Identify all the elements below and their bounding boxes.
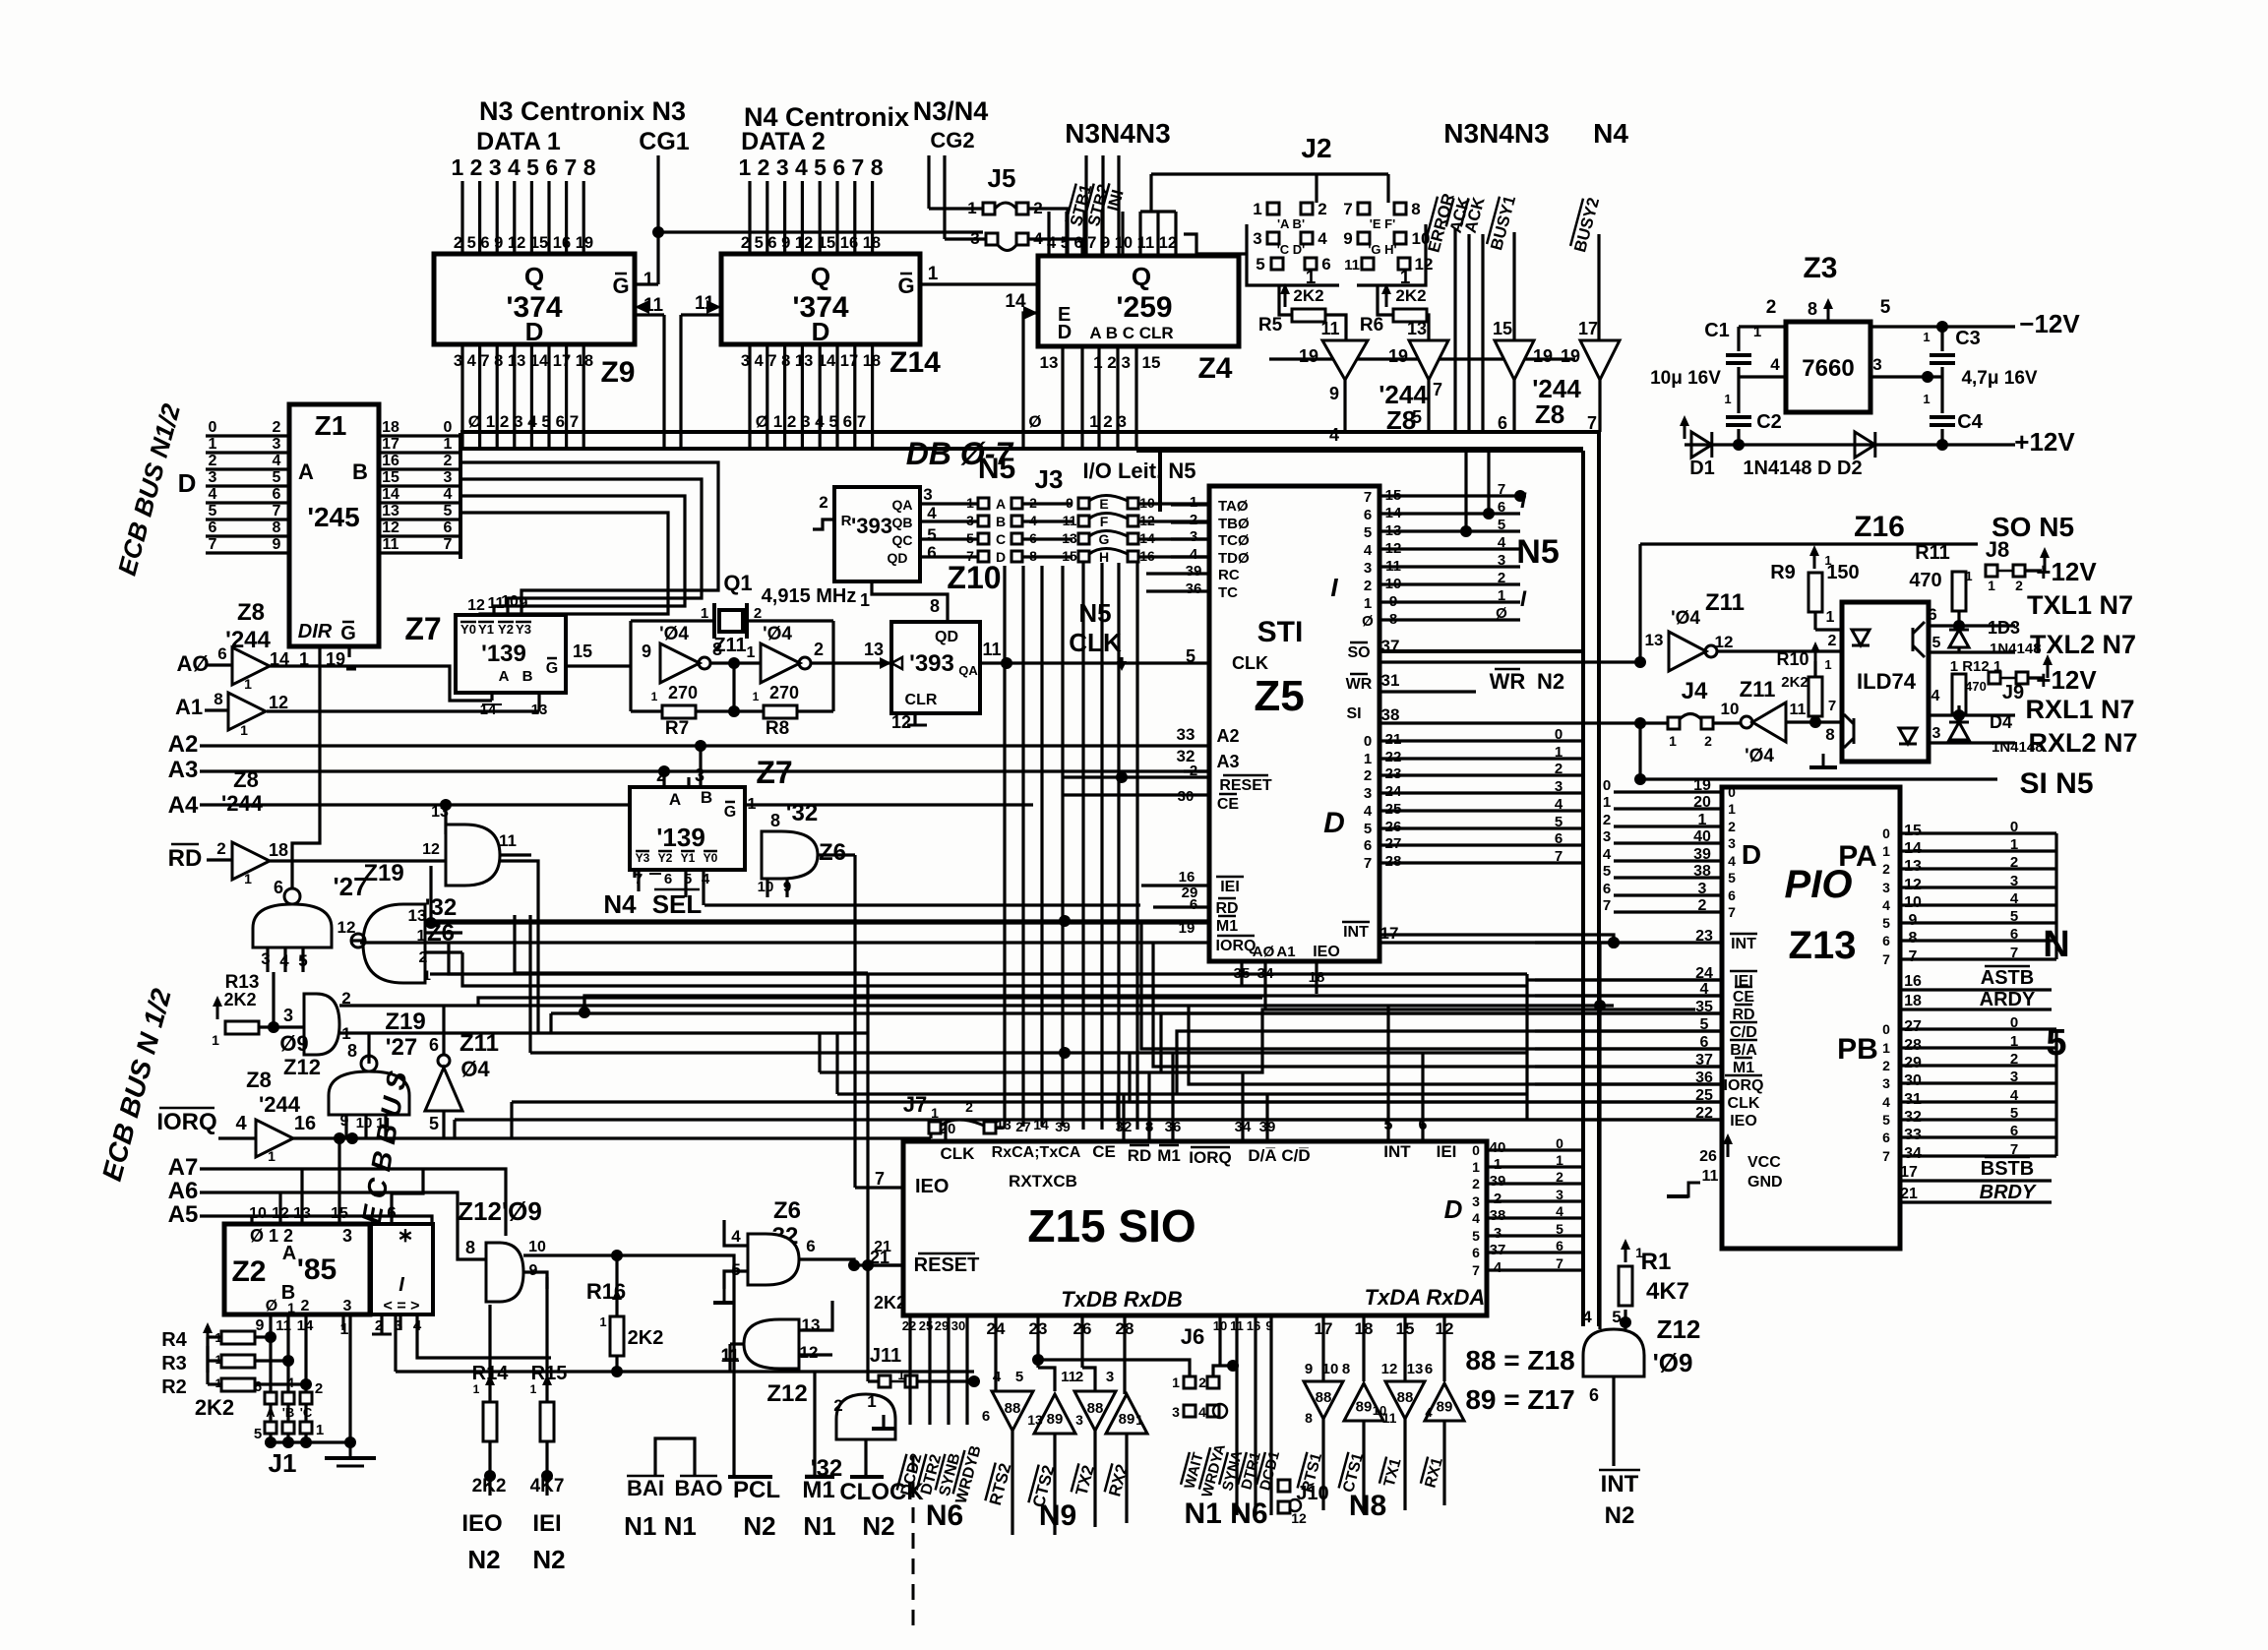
- svg-text:R: R: [841, 513, 852, 529]
- svg-text:16: 16: [294, 1113, 316, 1134]
- wire PIO D6 stub: [1614, 893, 1722, 896]
- and Z12b 09: [1583, 1329, 1644, 1376]
- svg-text:13: 13: [864, 640, 884, 659]
- wire midband v851: [835, 1033, 838, 1094]
- svg-text:WR: WR: [1490, 669, 1526, 694]
- resistor R11: [1952, 572, 1966, 611]
- svg-text:18: 18: [1904, 993, 1922, 1009]
- wire DATA1 bit 1: [460, 181, 463, 254]
- wire SI row: [1379, 721, 1640, 724]
- wire C2 v: [1737, 377, 1740, 413]
- wire T2 out: [1053, 1434, 1056, 1535]
- svg-text:Z19: Z19: [385, 1008, 425, 1035]
- svg-text:89: 89: [1437, 1399, 1453, 1416]
- svg-text:'139: '139: [481, 641, 526, 667]
- wire midband v539: [528, 915, 531, 1053]
- wire Z4 top connector: [1140, 210, 1176, 213]
- wire J7 out: [996, 1126, 1005, 1129]
- jumper J3 G sq2: [1128, 533, 1138, 544]
- net DTR2 rotated: [916, 1452, 945, 1497]
- svg-text:6: 6: [1555, 830, 1563, 847]
- svg-text:4: 4: [1329, 425, 1339, 445]
- svg-text:13: 13: [1040, 353, 1059, 372]
- svg-text:3: 3: [1698, 881, 1707, 897]
- jumper J8 sq1: [1986, 565, 1997, 577]
- svg-text:2: 2: [1494, 1191, 1502, 1207]
- wire feeder BA pio: [1535, 1047, 1722, 1050]
- wire TXL2 line: [1929, 650, 2015, 653]
- svg-text:'32: '32: [786, 800, 818, 826]
- wire Z5 D row 7: [1379, 861, 1583, 864]
- svg-text:4: 4: [1882, 897, 1890, 913]
- and Z12c gate: [486, 1243, 523, 1302]
- ic Z5 STI box: [1209, 486, 1379, 961]
- wire Z5 A0 drop: [1240, 961, 1243, 986]
- wire PB row 0: [1900, 1027, 2056, 1030]
- jumper J2 sq3: [1267, 232, 1279, 244]
- wire Z1 A side bit 0: [206, 434, 289, 437]
- svg-text:0: 0: [1364, 733, 1372, 750]
- svg-text:5: 5: [1498, 517, 1505, 533]
- wire R5 feed: [1279, 285, 1292, 315]
- svg-text:0: 0: [2010, 1014, 2018, 1031]
- wire 139b pin3 up: [699, 746, 702, 787]
- wire staircase r5: [1189, 1006, 1535, 1084]
- wire Z5 A3 stub: [1184, 769, 1209, 772]
- svg-text:12: 12: [1381, 1361, 1398, 1377]
- svg-text:12: 12: [337, 918, 356, 937]
- jumper J2 sq1: [1267, 203, 1279, 214]
- wire CG2 a: [927, 155, 930, 209]
- svg-text:5: 5: [1472, 1228, 1480, 1244]
- wire PIO D0 stub: [1614, 790, 1722, 793]
- svg-text:4K7: 4K7: [530, 1476, 565, 1497]
- svg-text:0: 0: [209, 419, 217, 436]
- svg-text:7: 7: [1343, 200, 1352, 218]
- svg-text:4: 4: [1931, 688, 1940, 704]
- svg-text:36: 36: [1186, 581, 1202, 597]
- wire J2 group frame right: [1357, 224, 1426, 285]
- latch Z14 '374 box: [721, 254, 920, 344]
- wire DATA2 bit 2: [766, 181, 768, 254]
- wire SIO D row 6: [1487, 1251, 1583, 1253]
- svg-text:13: 13: [1407, 1361, 1424, 1377]
- svg-text:1: 1: [1988, 578, 1995, 593]
- svg-text:1: 1: [753, 690, 760, 703]
- wire pin18 drop: [1362, 1315, 1365, 1381]
- wire CG2 to J5: [929, 207, 983, 210]
- wire PIO M1 stub: [1535, 1065, 1722, 1068]
- wire DATA2 bit 6: [835, 181, 838, 254]
- svg-text:10: 10: [1322, 1361, 1339, 1377]
- jumper J3 D sq1: [978, 551, 989, 562]
- wire Z1 B side bit 7: [379, 551, 460, 554]
- and Z12d gate: [744, 1319, 799, 1369]
- svg-text:QD: QD: [935, 629, 958, 645]
- jumper J5 arc top: [995, 203, 1016, 209]
- svg-text:GND: GND: [1747, 1174, 1783, 1191]
- svg-text:CG1: CG1: [639, 128, 690, 155]
- svg-text:1D3: 1D3: [1988, 618, 2020, 638]
- and Z12a 09: [304, 994, 339, 1055]
- net DCD1 rotated: [1256, 1449, 1283, 1493]
- wire midband v833: [818, 1033, 821, 1072]
- wire DATA1 bit 3: [496, 181, 499, 254]
- svg-text:IEI: IEI: [1220, 879, 1240, 895]
- svg-text:9: 9: [1909, 912, 1918, 929]
- svg-text:12: 12: [1715, 633, 1734, 651]
- inverter Z11e: [1752, 703, 1786, 742]
- svg-text:N3 Centronix N3: N3 Centronix N3: [479, 96, 686, 126]
- svg-text:+12V: +12V: [2036, 665, 2097, 695]
- wire 393a out B: [920, 519, 978, 522]
- svg-text:BAI: BAI: [627, 1476, 664, 1500]
- svg-text:7: 7: [1882, 1148, 1890, 1164]
- svg-text:J10: J10: [1296, 1483, 1328, 1504]
- wire SIO SYNB stub: [947, 1315, 950, 1425]
- svg-text:0: 0: [1882, 825, 1890, 841]
- wire Z14 out bit 2: [783, 344, 786, 449]
- svg-text:34: 34: [1904, 1145, 1922, 1162]
- svg-text:3: 3: [1882, 1075, 1890, 1091]
- svg-text:N5: N5: [978, 453, 1015, 485]
- wire midband h936: [431, 919, 1209, 922]
- svg-text:13: 13: [1904, 858, 1922, 875]
- jumper J11 sq2: [905, 1375, 917, 1387]
- resistor R9: [1808, 573, 1822, 612]
- wire IEO drop: [488, 1305, 491, 1402]
- svg-text:0: 0: [1603, 777, 1611, 794]
- net ACK rotated 2: [1460, 194, 1489, 234]
- svg-text:N: N: [2043, 924, 2069, 965]
- wire SI bottom line: [1640, 777, 1997, 780]
- svg-text:2K2: 2K2: [874, 1293, 906, 1313]
- wire DATA2 bit 5: [819, 181, 822, 254]
- svg-text:3: 3: [1472, 1193, 1480, 1209]
- wire PA row 6: [1900, 939, 2056, 942]
- resistor R16: [610, 1316, 624, 1356]
- wire J6 line: [1038, 1360, 1190, 1376]
- wire Z4 top pin 1: [1065, 212, 1068, 256]
- node C2 junction: [1733, 439, 1745, 451]
- svg-text:1: 1: [444, 436, 453, 453]
- wire C3 v: [1940, 327, 1943, 351]
- svg-text:G: G: [1099, 531, 1110, 547]
- svg-text:J5: J5: [988, 163, 1016, 193]
- wire feeder CE pio: [584, 996, 1722, 1012]
- svg-text:Z12'Ø9: Z12'Ø9: [458, 1196, 542, 1226]
- svg-text:4: 4: [1555, 796, 1563, 813]
- svg-text:A4: A4: [168, 792, 199, 819]
- svg-text:13: 13: [408, 906, 427, 925]
- svg-text:G: G: [897, 274, 914, 298]
- svg-text:4: 4: [444, 486, 453, 503]
- svg-text:12: 12: [382, 519, 399, 536]
- svg-text:0: 0: [1728, 784, 1736, 800]
- svg-text:J2: J2: [1301, 133, 1331, 163]
- svg-text:10: 10: [1721, 700, 1740, 718]
- svg-text:3 4 7 8 13 14 17 18: 3 4 7 8 13 14 17 18: [741, 352, 881, 370]
- resistor R3 box: [221, 1355, 255, 1368]
- wire Z5 D row 4: [1379, 809, 1583, 812]
- wire feeder IEI pio: [1527, 978, 1722, 981]
- svg-text:Z8: Z8: [237, 599, 265, 626]
- svg-text:A B C CLR: A B C CLR: [1089, 324, 1173, 342]
- pulse symbol: [655, 1438, 695, 1477]
- wire Z5 TC stub: [1146, 589, 1209, 592]
- svg-text:11: 11: [1382, 1410, 1397, 1426]
- svg-text:AØ: AØ: [1253, 944, 1275, 960]
- svg-text:2: 2: [1828, 633, 1837, 649]
- resistor R2 box: [221, 1378, 255, 1391]
- wire PA row 5: [1900, 921, 2056, 924]
- svg-text:21: 21: [874, 1239, 891, 1255]
- svg-text:6: 6: [429, 1035, 439, 1055]
- svg-text:37: 37: [1381, 637, 1400, 655]
- svg-text:1: 1: [1364, 595, 1372, 612]
- svg-text:D/A̅ C/D̅: D/A̅ C/D̅: [1248, 1146, 1310, 1165]
- svg-text:N2: N2: [862, 1511, 894, 1541]
- svg-text:40: 40: [1693, 828, 1711, 845]
- svg-text:ASTB: ASTB: [1981, 967, 2034, 989]
- wire ACK drop 2: [1481, 234, 1484, 432]
- svg-text:'Ø4: 'Ø4: [1671, 608, 1700, 629]
- wire staircase r6: [1130, 1053, 1535, 1102]
- wire pin9 drop: [1269, 1315, 1272, 1515]
- svg-text:6: 6: [254, 1378, 262, 1395]
- resistor R10: [1808, 677, 1822, 716]
- svg-text:18: 18: [269, 840, 288, 860]
- svg-text:88: 88: [1087, 1400, 1104, 1417]
- svg-text:6: 6: [1728, 887, 1736, 903]
- wire J5 row2 left: [945, 237, 986, 240]
- svg-text:N5: N5: [1516, 533, 1559, 571]
- wire PB row 4: [1900, 1100, 2056, 1103]
- wire CG1 vertical: [656, 155, 659, 284]
- wire IEI drop: [545, 1277, 548, 1402]
- wire N5 CLK arrow: [1120, 657, 1123, 663]
- buffer RD triangle: [232, 842, 270, 880]
- svg-text:4: 4: [1603, 846, 1612, 863]
- wire SO vert: [1638, 544, 1641, 662]
- bus vertical DB a: [1581, 651, 1585, 1326]
- wire R11 down: [1957, 611, 1960, 652]
- wire Z12d in12: [799, 1353, 832, 1356]
- svg-text:A: A: [669, 790, 681, 809]
- wire comp pin3 stub: [398, 1314, 401, 1330]
- node A4 junction2: [683, 799, 695, 811]
- svg-text:Ø4: Ø4: [460, 1057, 490, 1081]
- svg-text:Z5: Z5: [1254, 672, 1304, 720]
- wire osc top left: [631, 619, 714, 622]
- wire Z5 IEI stub: [1141, 884, 1209, 886]
- svg-text:J6: J6: [1181, 1324, 1204, 1349]
- svg-text:PB: PB: [1837, 1033, 1878, 1066]
- svg-text:2: 2: [819, 493, 828, 512]
- svg-text:5: 5: [444, 503, 453, 519]
- wire PIO D1 stub: [1614, 807, 1722, 810]
- svg-text:8: 8: [1342, 1361, 1350, 1377]
- wire staircase r3: [1141, 921, 1535, 1049]
- label M1 CLOCK bars: [805, 1475, 834, 1479]
- svg-text:3: 3: [1728, 835, 1736, 851]
- svg-text:39: 39: [1186, 563, 1202, 580]
- svg-text:6: 6: [274, 878, 283, 897]
- receiver 89 T4: [1106, 1394, 1147, 1434]
- svg-text:88 = Z18: 88 = Z18: [1465, 1345, 1574, 1375]
- wire SIO D row 0: [1487, 1148, 1583, 1151]
- svg-text:Z8: Z8: [233, 767, 259, 792]
- wire Z9 out bit 7: [582, 344, 585, 449]
- bus DB line upper: [460, 430, 1600, 434]
- svg-text:6: 6: [664, 871, 672, 887]
- wire feeder band a: [449, 943, 1527, 974]
- diode D3: [1949, 630, 1969, 647]
- svg-text:14: 14: [382, 486, 399, 503]
- resistor R13: [225, 1021, 259, 1034]
- svg-text:Ø: Ø: [1362, 613, 1374, 630]
- svg-text:5: 5: [1256, 255, 1264, 274]
- wire PB row 2: [1900, 1064, 2056, 1067]
- jumper J2 sq7: [1358, 203, 1370, 214]
- svg-text:RD: RD: [1732, 1007, 1754, 1023]
- wire Z5 INT out: [1379, 935, 1614, 943]
- svg-text:1: 1: [473, 1382, 480, 1396]
- svg-text:13: 13: [1645, 631, 1664, 649]
- svg-text:19: 19: [1533, 346, 1553, 366]
- svg-text:'Ø4: 'Ø4: [659, 624, 689, 644]
- svg-text:1: 1: [651, 690, 658, 703]
- label Z2 pin1 stub: [341, 1314, 344, 1330]
- svg-text:11: 11: [982, 640, 1001, 659]
- svg-text:B/A: B/A: [1730, 1042, 1757, 1059]
- svg-text:Z4: Z4: [1197, 352, 1232, 385]
- wire Z6a in2: [425, 950, 462, 953]
- svg-text:H: H: [1099, 549, 1109, 565]
- wire Z14 out bit 4: [819, 344, 822, 449]
- svg-text:CE: CE: [1217, 796, 1240, 813]
- wire J3 H out: [1138, 555, 1209, 558]
- net STB1 rotated: [1066, 182, 1096, 228]
- resistor R12: [1952, 674, 1966, 713]
- svg-text:5: 5: [1364, 524, 1372, 541]
- wire DATA1 bit 5: [530, 181, 533, 254]
- wire R12 down: [1957, 705, 1960, 715]
- wire PIO D5 stub: [1614, 876, 1722, 879]
- wire tri4 out: [1598, 380, 1601, 432]
- svg-text:5: 5: [1556, 1221, 1563, 1237]
- wire R10 down: [1813, 716, 1816, 722]
- svg-text:13: 13: [531, 702, 548, 718]
- wire Z1 B side bit 5: [379, 518, 460, 520]
- svg-text:TDØ: TDØ: [1218, 550, 1250, 567]
- wire J3 A out: [1022, 502, 1073, 505]
- wire osc right: [831, 621, 834, 711]
- svg-text:12: 12: [891, 712, 911, 732]
- svg-text:IEI: IEI: [1437, 1142, 1457, 1161]
- wire Z5 RC stub: [1146, 572, 1209, 575]
- svg-text:TAØ: TAØ: [1218, 498, 1249, 515]
- svg-text:4: 4: [1770, 355, 1780, 374]
- svg-text:16: 16: [1179, 869, 1195, 886]
- jumper J7 sq2: [984, 1122, 996, 1133]
- svg-text:2K2: 2K2: [223, 990, 256, 1009]
- svg-text:11: 11: [1061, 1369, 1076, 1385]
- svg-text:R1: R1: [1641, 1249, 1672, 1275]
- svg-text:4,7μ 16V: 4,7μ 16V: [1961, 368, 2037, 389]
- svg-text:BAO: BAO: [675, 1476, 723, 1500]
- wire STB2 drop: [1101, 155, 1104, 256]
- resistor R4 box: [221, 1331, 255, 1344]
- svg-text:B: B: [352, 459, 368, 484]
- wire PIO INT stub: [1535, 941, 1722, 944]
- wire J9 out: [2028, 676, 2045, 679]
- svg-text:ILD74: ILD74: [1857, 669, 1917, 694]
- svg-text:9: 9: [273, 536, 281, 553]
- svg-text:4: 4: [927, 504, 937, 522]
- svg-text:5: 5: [1603, 863, 1611, 880]
- svg-text:4: 4: [1728, 853, 1736, 869]
- svg-text:QB: QB: [892, 515, 913, 530]
- svg-text:Ø: Ø: [1028, 412, 1041, 431]
- svg-text:Z11: Z11: [460, 1030, 499, 1057]
- svg-text:33: 33: [1177, 725, 1195, 744]
- wire inv1 to inv2: [710, 661, 761, 664]
- wire feeder CD pio: [1535, 1029, 1722, 1032]
- capacitor C3: [1930, 353, 1955, 357]
- svg-text:I: I: [1520, 586, 1527, 611]
- svg-text:CG2: CG2: [930, 128, 974, 153]
- svg-text:7: 7: [1472, 1262, 1480, 1278]
- wire Z12d in13: [799, 1301, 832, 1330]
- svg-text:5: 5: [966, 530, 974, 546]
- wire bus bend 4: [460, 513, 668, 615]
- svg-text:I/O Leit. N5: I/O Leit. N5: [1083, 458, 1196, 483]
- svg-text:3: 3: [923, 485, 932, 504]
- svg-text:2: 2: [2010, 1051, 2018, 1068]
- wire R14 down: [488, 1441, 491, 1496]
- svg-text:1: 1: [1555, 744, 1563, 761]
- svg-text:RXL1 N7: RXL1 N7: [2025, 695, 2134, 724]
- svg-text:13: 13: [1027, 1412, 1043, 1428]
- svg-text:N1: N1: [803, 1511, 835, 1541]
- svg-text:RXL2 N7: RXL2 N7: [2028, 728, 2137, 758]
- svg-text:6: 6: [1321, 255, 1330, 274]
- svg-text:2: 2: [1364, 578, 1372, 594]
- svg-text:32: 32: [1904, 1109, 1922, 1126]
- wire WR row: [1379, 690, 1476, 693]
- svg-text:IEO: IEO: [915, 1176, 949, 1197]
- wire N4SEL line: [705, 903, 1140, 906]
- or Z6e gate: [836, 1394, 895, 1439]
- svg-text:Ø: Ø: [266, 1298, 277, 1314]
- capacitor C2: [1726, 415, 1751, 419]
- svg-text:Z11: Z11: [713, 635, 746, 656]
- jumper J2 sq6: [1305, 258, 1317, 270]
- svg-text:D: D: [1323, 807, 1345, 839]
- wire Z6a out line: [351, 939, 363, 942]
- svg-text:Z11: Z11: [1705, 589, 1745, 616]
- svg-text:38: 38: [1490, 1207, 1506, 1224]
- node Z6a junction13: [425, 917, 437, 929]
- wire R3 out: [255, 1359, 288, 1362]
- svg-text:88: 88: [1316, 1389, 1332, 1406]
- wire Z19b out up: [367, 1033, 370, 1064]
- svg-text:10: 10: [758, 879, 774, 895]
- svg-text:11: 11: [1702, 1168, 1719, 1185]
- jumper J1 sq B: [282, 1392, 294, 1404]
- wire Z4 top pin 0: [1047, 212, 1050, 256]
